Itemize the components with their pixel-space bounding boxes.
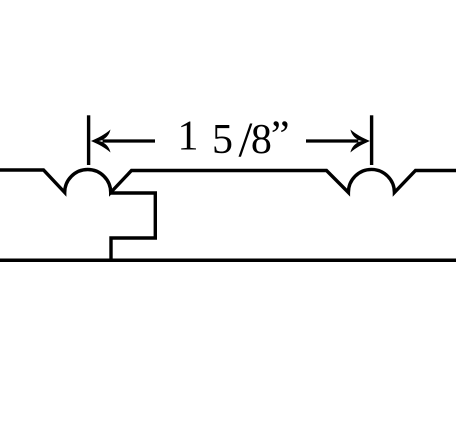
dimension arrowhead right bbox=[350, 130, 370, 153]
board bottom face line bbox=[0, 258, 456, 262]
dimension extension line left bbox=[87, 115, 90, 165]
dimension line left segment bbox=[103, 139, 156, 142]
board top face profile with bead B1 and bead B2 bbox=[0, 169, 456, 192]
dimension arrowhead left bbox=[91, 130, 111, 153]
shiplap joint step bbox=[111, 193, 156, 260]
dimension line right segment bbox=[306, 139, 358, 142]
svg-text:1 5/8”: 1 5/8” bbox=[178, 111, 292, 167]
dimension extension line right bbox=[370, 115, 373, 165]
